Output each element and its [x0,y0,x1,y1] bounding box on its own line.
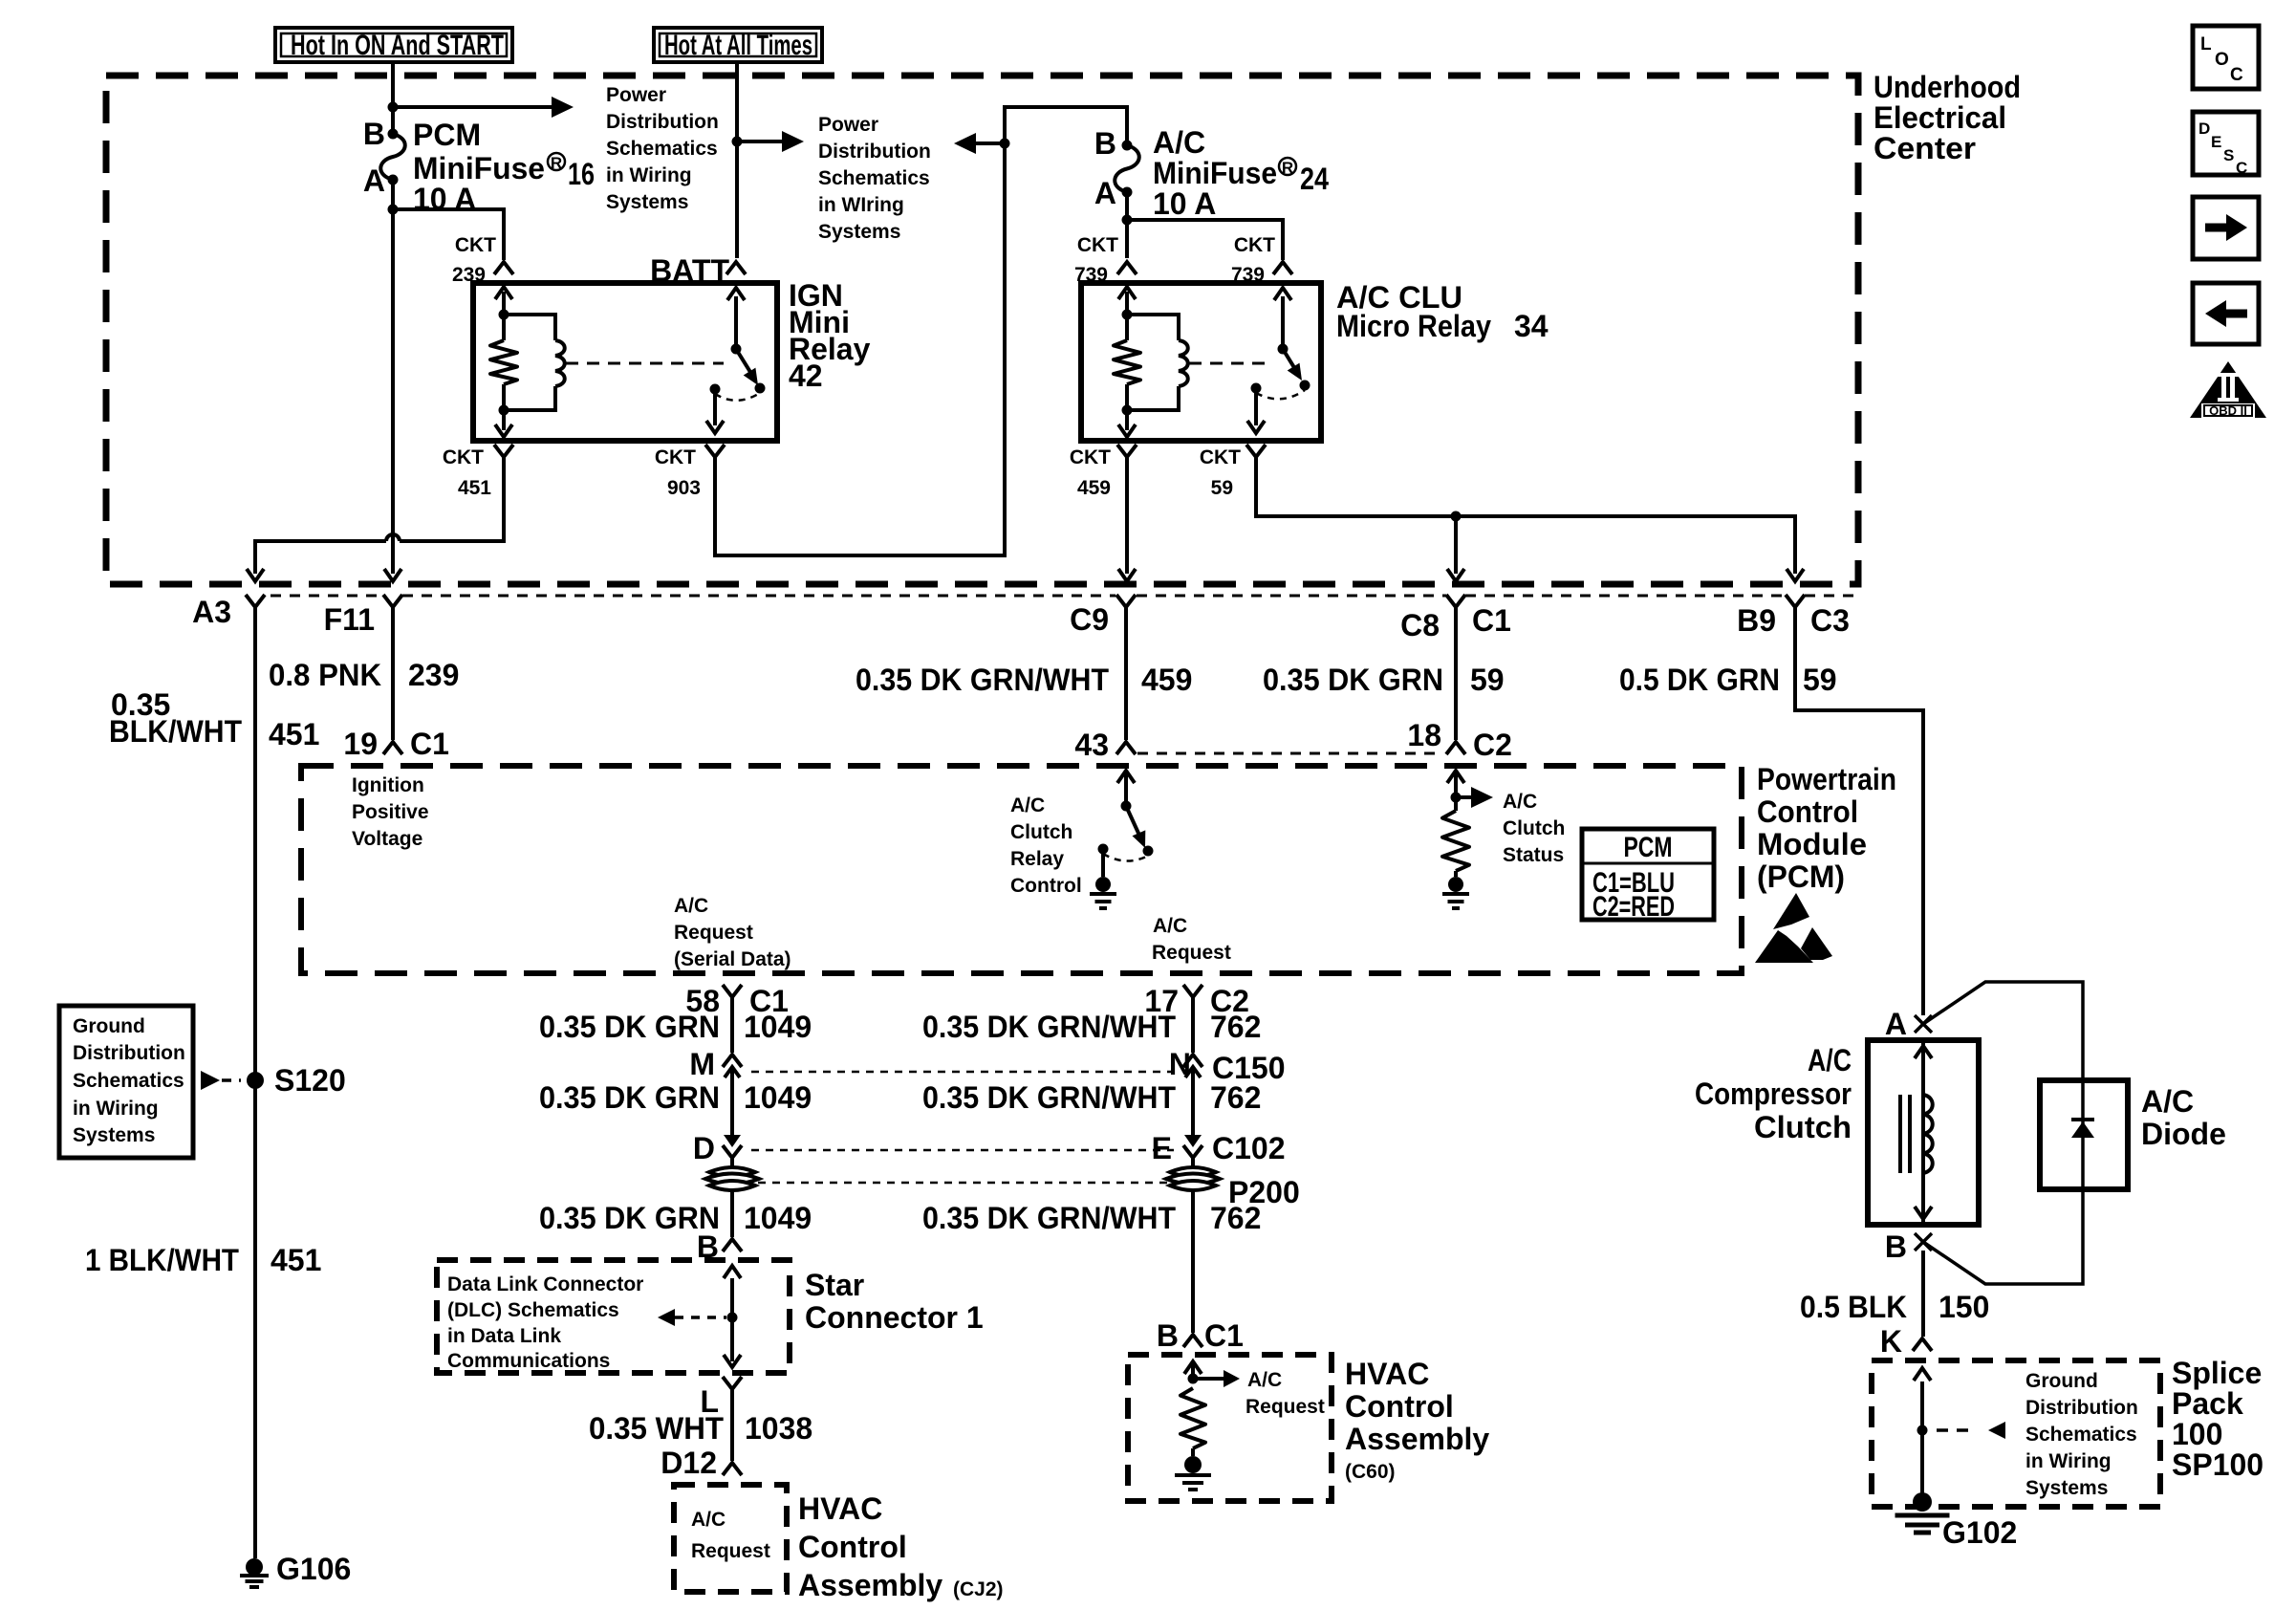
svg-text:Underhood: Underhood [1874,70,2021,104]
svg-text:F11: F11 [324,602,375,637]
svg-text:1049: 1049 [744,1010,812,1044]
svg-text:451: 451 [271,1243,321,1277]
svg-text:CKT: CKT [1070,446,1111,468]
wire: CKT 59 branch to C3 [1456,516,1795,574]
A/C relay switch blade [1283,349,1298,374]
in-line connector boundary pins 43-18 [1137,752,1443,755]
svg-text:Request: Request [691,1540,770,1562]
connector half: CKT 59 [1246,445,1266,457]
connector half: K [1913,1338,1932,1351]
A/C clutch status pin arrow [1454,771,1458,797]
wire: CKT 739 left [1125,220,1129,258]
A/C compressor clutch box [1868,1040,1979,1225]
wire: below fuse A to UEC exit [391,180,395,574]
svg-text:B: B [1094,126,1116,161]
Star Connector 1 dashed box [437,1260,790,1373]
svg-text:Powertrain: Powertrain [1757,762,1896,796]
svg-text:Distribution: Distribution [2025,1397,2138,1419]
svg-text:A/C: A/C [1503,791,1537,813]
connector half: PCM pin 19 C1 [383,742,402,754]
svg-text:C2: C2 [1473,728,1512,762]
A/C relay coil output arrow [1125,410,1129,430]
svg-text:Star: Star [805,1268,864,1302]
svg-text:Power: Power [818,114,878,136]
svg-text:451: 451 [458,477,491,499]
svg-text:18: 18 [1407,718,1441,752]
connector boundary C150 [751,1071,1174,1074]
svg-text:D: D [2199,120,2210,138]
relay box: IGN Mini Relay 42 [473,283,777,441]
wire: CKT 451 to PCM connector A3 [400,457,504,541]
Underhood Electrical Center dashed enclosure [106,76,1858,584]
svg-text:Clutch: Clutch [1754,1110,1852,1144]
wire arrow: A/C request signal [1193,1377,1226,1381]
svg-text:(CJ2): (CJ2) [953,1578,1004,1600]
svg-text:HVAC: HVAC [798,1491,882,1526]
wire: branch to CKT 239 [393,209,504,260]
inductor: clutch coil [1923,1095,1933,1173]
node: splice junction G102 [1917,1425,1928,1436]
svg-text:CKT: CKT [1200,446,1241,468]
svg-text:Status: Status [1503,844,1564,866]
star connector internal wire [730,1278,734,1361]
relay box: A/C CLU Micro Relay 34 [1081,283,1321,441]
svg-text:Hot At All Times: Hot At All Times [664,30,812,61]
node: A/C relay coil bottom [1122,405,1133,416]
svg-text:BATT: BATT [650,253,729,288]
node: junction to power distribution arrow (right) [732,137,743,147]
svg-text:A/C: A/C [1247,1369,1282,1391]
wire: fuse A to junction [1125,192,1129,220]
connector half: A3 [246,595,265,607]
svg-text:451: 451 [269,717,319,751]
svg-text:0.8 PNK: 0.8 PNK [269,658,381,692]
svg-text:D12: D12 [661,1446,717,1480]
HVAC Control Assembly (C60) dashed box [1128,1355,1332,1501]
legend icon: left arrow [2193,283,2259,344]
svg-text:HVAC: HVAC [1345,1357,1429,1391]
svg-text:MiniFuse: MiniFuse [413,151,545,185]
ground: A/C clutch status [1448,877,1463,892]
svg-text:Schematics: Schematics [606,138,718,160]
relay switch blade [736,349,753,377]
node: clutch status junction [1451,793,1462,803]
svg-text:A/C: A/C [674,895,708,917]
connector half: compressor clutch terminal A [1915,1015,1932,1033]
svg-text:Voltage: Voltage [352,828,422,850]
dashed actuation line (A/C relay) [1189,362,1271,365]
resistor: A/C request (C60) [1180,1388,1205,1448]
node: A/C request junction [1188,1374,1199,1384]
svg-text:1049: 1049 [744,1080,812,1115]
connector half: CKT 459 [1117,445,1137,457]
svg-text:Ground: Ground [73,1015,145,1037]
svg-text:A/C: A/C [691,1509,726,1531]
wire: diode branch top [1923,982,2083,1080]
svg-text:Power: Power [606,84,666,106]
svg-text:in WIring: in WIring [818,194,904,216]
svg-text:0.35 DK GRN: 0.35 DK GRN [539,1201,720,1235]
node: switch pivot [1121,801,1132,812]
dashed actuation line [566,362,724,365]
svg-text:(PCM): (PCM) [1757,859,1845,894]
svg-text:A/C: A/C [1010,794,1045,816]
connector half: compressor clutch terminal B [1915,1233,1932,1251]
svg-text:A/C: A/C [1153,125,1205,160]
node: junction below fuse A [388,205,399,215]
svg-text:O: O [2215,50,2229,70]
wire: diode branch bottom [1923,1189,2083,1284]
connector half: CKT 239 [494,262,513,274]
connector half: PCM pin 17 C2 [1183,985,1202,997]
wire: CKT 59 branch to C1 [1454,516,1458,574]
A/C clutch relay control switch pin arrow [1124,771,1128,806]
diode internal wire [2081,1080,2085,1189]
svg-text:Request: Request [674,922,753,944]
svg-text:Compressor: Compressor [1695,1077,1852,1111]
svg-text:A: A [1885,1007,1907,1041]
svg-text:L: L [2200,34,2212,54]
dashed arrow to DLC schematics [675,1316,726,1319]
svg-text:762: 762 [1210,1201,1261,1235]
wire: 0.35 DK GRN/WHT 459 to PCM pin 43 [1124,607,1128,740]
connector half: CKT 739 (coil) [1117,262,1137,274]
svg-text:M: M [689,1047,715,1081]
wire: into grommet P200 [1191,1158,1195,1168]
svg-text:1038: 1038 [745,1411,812,1446]
svg-text:Systems: Systems [2025,1477,2108,1499]
splice pack internal wire [1920,1382,1924,1493]
HVAC C60 internal pin arrow [1191,1361,1195,1379]
legend icon: DESC [2193,112,2259,175]
svg-text:0.35 DK GRN: 0.35 DK GRN [539,1080,720,1115]
connector half: D12 [723,1463,742,1475]
svg-text:CKT: CKT [1234,234,1275,256]
svg-text:239: 239 [408,658,459,692]
wire arrow pointing to Power Distribution text [969,141,1005,145]
connector half: C9 [1116,595,1136,607]
svg-text:Center: Center [1874,131,1976,165]
svg-text:Clutch: Clutch [1010,821,1072,843]
connector boundary P200 [758,1182,1167,1185]
svg-text:59: 59 [1211,477,1233,499]
svg-text:Hot In ON And START: Hot In ON And START [291,30,504,61]
svg-text:0.35 DK GRN: 0.35 DK GRN [1263,663,1443,697]
svg-text:43: 43 [1074,728,1109,762]
connector half: B C1 (HVAC C60) [1183,1335,1202,1347]
legend icon: right arrow [2193,197,2259,259]
dashed arrow to S120 [201,1071,220,1090]
svg-text:Data Link Connector: Data Link Connector [447,1273,643,1295]
svg-text:Schematics: Schematics [818,167,930,189]
svg-text:1049: 1049 [744,1201,812,1235]
svg-text:150: 150 [1939,1290,1989,1324]
grommet pass-through (serial data) [709,1167,755,1177]
svg-text:C1: C1 [1472,603,1511,638]
svg-text:Clutch: Clutch [1503,817,1565,839]
clutch plates [1898,1095,1902,1173]
node: A/C relay coil top [1122,310,1133,320]
svg-text:34: 34 [1514,309,1549,343]
legend icon: OBD II triangle [2190,361,2266,418]
svg-text:B: B [1157,1318,1179,1353]
wire: CKT 59 to C1 and C3 [1256,457,1456,516]
svg-text:Control: Control [1757,794,1858,829]
wire: 0.35 DK GRN 1049 segment 3 [730,1188,734,1237]
label box: Hot At All Times [654,28,822,62]
svg-text:(Serial Data): (Serial Data) [674,948,791,970]
ESD sensitive device symbol [1773,893,1809,929]
svg-text:16: 16 [568,157,595,191]
connector half: CKT 903 [705,445,725,457]
switch blade: A/C clutch relay control [1126,806,1141,839]
svg-text:CKT: CKT [655,446,696,468]
svg-text:CKT: CKT [1077,234,1118,256]
node: splice S120 [247,1072,264,1089]
wire: ignition feed from Hot In ON And START [391,62,395,134]
svg-text:Module: Module [1757,827,1867,861]
box: Ground Distribution Schematics in Wiring Systems [59,1006,193,1158]
wire: 0.5 BLK 150 to splice pack [1921,1251,1925,1337]
svg-text:42: 42 [789,359,823,393]
wire: 0.35 BLK/WHT 451 down left side [253,607,257,1558]
svg-text:PCM: PCM [1624,832,1673,863]
wire: 0.35 WHT 1038 [730,1389,734,1461]
svg-text:R: R [551,154,562,172]
svg-text:0.35 WHT: 0.35 WHT [589,1411,724,1446]
svg-text:C: C [2236,159,2247,177]
in-line connector boundary below UEC [271,595,383,598]
svg-text:S120: S120 [274,1063,346,1098]
svg-text:B9: B9 [1737,603,1776,638]
wire arrow to Power Distribution Schematics (right) [737,140,788,143]
relay switch: common BATT pin [734,296,738,349]
in-line connector D C102 [724,1135,741,1147]
svg-text:Assembly: Assembly [1345,1422,1489,1456]
inductor: relay coil [504,315,555,340]
svg-text:MiniFuse: MiniFuse [1153,156,1277,190]
ground: A/C clutch relay control [1095,877,1111,892]
svg-text:0.5 DK GRN: 0.5 DK GRN [1619,663,1780,697]
resistor: A/C relay suppression resistor [1125,315,1129,340]
svg-text:1 BLK/WHT: 1 BLK/WHT [85,1243,239,1277]
node: junction below A/C fuse [1122,215,1133,226]
svg-text:C102: C102 [1212,1131,1286,1165]
svg-text:Splice: Splice [2172,1356,2262,1390]
svg-text:Control: Control [1345,1389,1454,1424]
resistor: A/C clutch status pull-up [1454,797,1458,811]
svg-text:B: B [363,117,385,151]
svg-text:in Wiring: in Wiring [73,1098,159,1120]
svg-text:59: 59 [1470,663,1505,697]
svg-text:A/C: A/C [1808,1043,1852,1077]
svg-text:CKT: CKT [443,446,484,468]
svg-text:C1: C1 [410,727,449,761]
svg-text:G102: G102 [1942,1515,2017,1550]
svg-text:E: E [1152,1131,1172,1165]
svg-text:C: C [2230,65,2243,85]
connector boundary C102 [751,1149,1174,1152]
wire: CKT 459 down to UEC border [1125,457,1129,574]
svg-text:C1: C1 [1204,1318,1244,1353]
HVAC Control Assembly (CJ2) dashed box [674,1485,787,1592]
svg-text:B: B [1885,1229,1907,1264]
svg-text:100: 100 [2172,1417,2222,1451]
wire: battery feed from Hot At All Times [735,62,739,258]
svg-text:0.35 DK GRN/WHT: 0.35 DK GRN/WHT [922,1201,1176,1235]
connector half: PCM pin 58 C1 [723,985,742,997]
svg-text:Electrical: Electrical [1874,100,2006,135]
ground: HVAC C60 internal [1184,1456,1202,1473]
wire: 0.5 DK GRN 59 to A/C compressor clutch [1795,607,1923,1015]
svg-text:Distribution: Distribution [606,111,719,133]
svg-text:A/C: A/C [1153,915,1187,937]
svg-text:0.35 DK GRN/WHT: 0.35 DK GRN/WHT [922,1080,1176,1115]
wire arrow: clutch status signal [1456,795,1480,799]
svg-text:Schematics: Schematics [2025,1424,2137,1446]
svg-text:Control: Control [1010,875,1082,897]
node: junction to power distribution arrow [388,102,399,113]
svg-text:0.35 DK GRN/WHT: 0.35 DK GRN/WHT [856,663,1109,697]
node: junction to power distribution (A/C feed) [1000,139,1010,149]
ground: G102 [1913,1492,1932,1512]
connector half: CKT 739 (switch) [1273,262,1292,274]
wire: 0.35 DK GRN 59 to PCM pin 18 [1454,607,1458,740]
connector half: B9 / C3 [1786,595,1805,607]
connector half: B (star connector) [723,1239,742,1251]
connector half: C8 / C1 [1446,595,1465,607]
diode symbol [2071,1121,2094,1138]
svg-text:0.35 DK GRN/WHT: 0.35 DK GRN/WHT [922,1010,1176,1044]
fuse: PCM MiniFuse 16 10A [388,129,399,140]
svg-text:Systems: Systems [73,1124,155,1146]
svg-text:19: 19 [343,727,378,761]
svg-text:A3: A3 [192,595,231,629]
svg-text:Control: Control [798,1530,907,1564]
wire: main ignition feed arrow at UEC exit [384,569,401,581]
svg-text:Communications: Communications [447,1350,610,1372]
Splice Pack 100 SP100 dashed box [1872,1360,2160,1507]
svg-text:24: 24 [1300,162,1329,196]
svg-text:Ground: Ground [2025,1370,2098,1392]
relay coil pin arrow [1125,292,1129,315]
node: CKT 59 branch junction [1451,511,1462,522]
inductor: A/C relay coil [1127,315,1179,340]
svg-text:Pack: Pack [2172,1386,2243,1421]
wire: branch to CKT 739 right [1127,220,1283,260]
wire: arrow to Power Distribution Schematics (left) [393,105,558,109]
table: PCM connector color legend [1582,829,1714,920]
svg-text:459: 459 [1141,663,1192,697]
svg-text:Diode: Diode [2141,1117,2226,1151]
svg-text:Relay: Relay [1010,848,1064,870]
connector half: PCM pin 43 [1116,742,1136,754]
svg-text:Systems: Systems [818,221,900,243]
wire into grommet [730,1158,734,1168]
resistor: relay coil suppression resistor [502,315,506,340]
fuse: A/C MiniFuse 24 10A [1122,141,1133,151]
legend icon: LOC [2193,26,2259,89]
svg-text:762: 762 [1210,1080,1261,1115]
svg-text:903: 903 [667,477,701,499]
ground: G106 [246,1558,263,1576]
A/C diode box [2040,1080,2128,1189]
svg-text:Schematics: Schematics [73,1070,184,1092]
A/C relay switch output contact [1251,383,1262,394]
switch contact to ground [1098,844,1109,855]
svg-text:in Data Link: in Data Link [447,1325,561,1347]
svg-text:PCM: PCM [413,118,481,152]
in-line connector M C150 [723,1055,742,1067]
svg-text:R: R [1282,159,1293,177]
svg-text:BLK/WHT: BLK/WHT [109,714,242,749]
svg-text:G106: G106 [276,1552,351,1586]
svg-text:Distribution: Distribution [818,141,931,163]
node: star connector junction [727,1313,738,1323]
connector half: F11 [383,595,402,607]
svg-text:0.35 DK GRN: 0.35 DK GRN [539,1010,720,1044]
node: coil top [499,310,509,320]
svg-text:Request: Request [1152,942,1231,964]
svg-text:459: 459 [1077,477,1111,499]
wire: 0.8 PNK 239 to PCM pin 19 [391,607,395,740]
wire: CKT 903 to A/C fuse feed [715,107,1127,555]
svg-text:0.5 BLK: 0.5 BLK [1800,1290,1907,1324]
svg-text:Positive: Positive [352,801,429,823]
svg-text:Request: Request [1245,1396,1325,1418]
svg-text:D: D [693,1131,715,1165]
label box: Hot In ON And START [275,28,512,62]
in-line connector E C102 [1184,1135,1202,1147]
dashed arrow to ground distribution text [1937,1428,1971,1432]
connector half: BATT [726,262,746,274]
wire: 0.35 DK GRN/WHT 762 segment 3 [1191,1188,1195,1333]
svg-text:K: K [1880,1324,1902,1359]
svg-text:59: 59 [1803,663,1837,697]
svg-text:SP100: SP100 [2172,1447,2264,1482]
svg-text:A: A [363,163,385,198]
svg-text:C2=RED: C2=RED [1592,891,1675,923]
Powertrain Control Module dashed enclosure [301,766,1742,973]
svg-text:(DLC) Schematics: (DLC) Schematics [447,1299,619,1321]
relay coil pin 239 arrow [502,292,506,315]
svg-text:(C60): (C60) [1345,1461,1396,1483]
svg-text:Connector 1: Connector 1 [805,1300,984,1335]
compressor clutch internal wire [1921,1040,1925,1225]
svg-text:Ignition: Ignition [352,774,424,796]
connector half: L [723,1377,742,1389]
svg-text:OBD II: OBD II [2209,403,2247,418]
svg-text:Distribution: Distribution [73,1042,185,1064]
svg-text:S: S [2223,146,2234,164]
svg-text:A/C: A/C [2141,1084,2194,1119]
svg-text:Assembly: Assembly [798,1568,942,1602]
svg-text:Systems: Systems [606,191,688,213]
svg-text:10 A: 10 A [1153,186,1216,221]
wire: 0.35 DK GRN 1049 segment 1 [730,997,734,1053]
svg-text:C9: C9 [1070,602,1109,637]
A/C relay switch common pin [1281,296,1285,349]
svg-text:762: 762 [1210,1010,1261,1044]
grommet pass-through (A/C request) [1170,1167,1216,1177]
relay switch output contact [710,384,721,395]
in-line connector N C150 [1183,1055,1202,1067]
node: coil bottom [499,405,509,416]
wire: 0.35 DK GRN/WHT 762 segment 1 [1191,997,1195,1053]
svg-text:Micro Relay: Micro Relay [1336,309,1491,343]
svg-text:in Wiring: in Wiring [606,164,692,186]
svg-text:A: A [1094,176,1116,210]
